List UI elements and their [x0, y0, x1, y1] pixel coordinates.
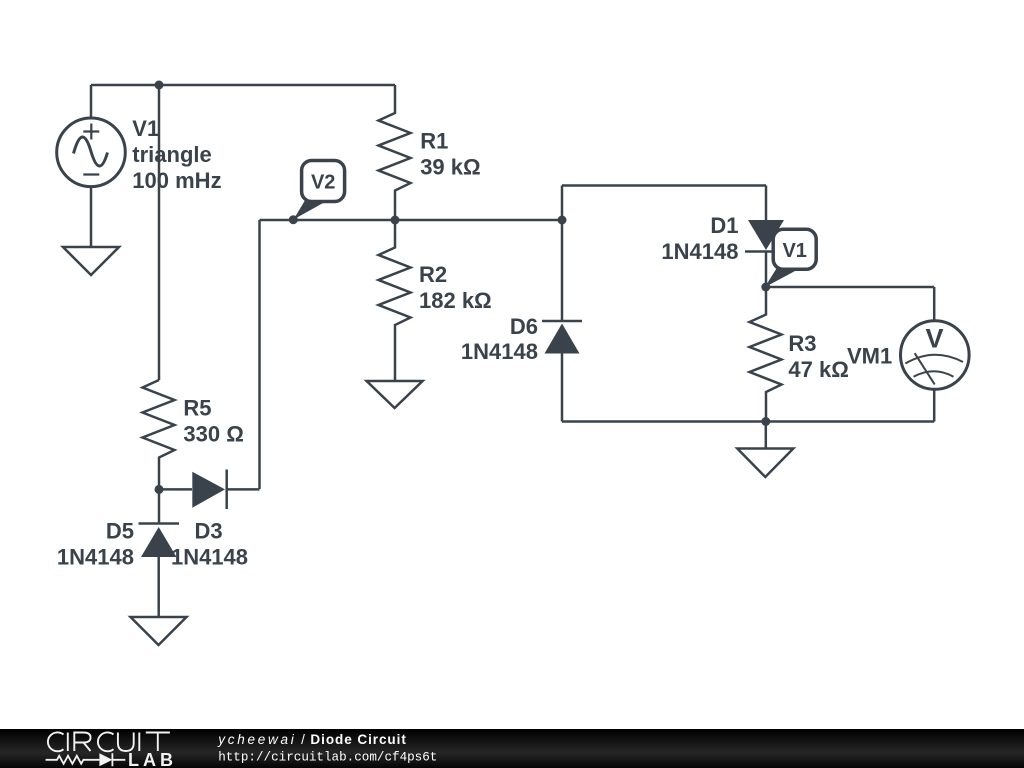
wire mid horizontal node V2 — [260, 219, 563, 222]
svg-text:1N4148: 1N4148 — [461, 339, 538, 364]
svg-text:V1: V1 — [132, 116, 159, 141]
diode D1 — [745, 186, 784, 288]
R1 labels — [420, 129, 480, 180]
svg-text:VM1: VM1 — [847, 344, 892, 369]
footer bar — [0, 729, 1024, 768]
ground under V1 — [63, 247, 119, 275]
R5 labels — [183, 395, 243, 446]
ground under R2 — [367, 381, 423, 408]
resistor R5 — [143, 380, 175, 489]
svg-text:ycheewai / Diode Circuit: ycheewai / Diode Circuit — [217, 732, 407, 747]
D6 labels — [461, 314, 538, 364]
wire vertical left of node — [258, 220, 261, 489]
CircuitLab logo wordmark — [48, 732, 170, 751]
R3 labels — [788, 331, 848, 382]
svg-text:182 kΩ: 182 kΩ — [419, 288, 492, 313]
node junction dot top — [155, 81, 164, 90]
junction dot bottom — [761, 417, 770, 426]
svg-text:D3: D3 — [194, 519, 222, 544]
svg-text:R5: R5 — [183, 395, 211, 420]
svg-text:R3: R3 — [788, 331, 816, 356]
label flag V1 — [765, 229, 816, 287]
svg-text:1N4148: 1N4148 — [57, 544, 134, 569]
voltage source V1 — [57, 85, 126, 247]
D1 labels — [661, 213, 738, 264]
svg-text:triangle: triangle — [132, 142, 211, 167]
svg-text:330 Ω: 330 Ω — [183, 422, 243, 447]
svg-text:D1: D1 — [710, 213, 738, 238]
ground under D5 — [131, 617, 187, 645]
svg-text:39 kΩ: 39 kΩ — [420, 155, 480, 180]
svg-text:V: V — [925, 324, 943, 354]
wire node V1 to voltmeter — [766, 286, 934, 289]
R2 labels — [419, 262, 492, 313]
wire top horizontal — [91, 84, 395, 87]
voltmeter VM1 — [901, 287, 970, 422]
svg-text:V1: V1 — [782, 240, 806, 262]
wire vertical left box side (through D6) — [561, 186, 564, 322]
resistor R2 — [379, 220, 411, 381]
resistor R3 — [750, 287, 782, 422]
svg-text:D5: D5 — [106, 519, 134, 544]
svg-text:1N4148: 1N4148 — [171, 544, 248, 569]
svg-text:R2: R2 — [419, 262, 447, 287]
diode D6 — [542, 321, 582, 422]
junction dot R5/D5/D3 — [155, 485, 164, 494]
label flag V2 — [289, 161, 345, 225]
svg-text:D6: D6 — [510, 314, 538, 339]
svg-text:47 kΩ: 47 kΩ — [788, 357, 848, 382]
svg-text:100 mHz: 100 mHz — [132, 168, 221, 193]
svg-text:R1: R1 — [420, 129, 448, 154]
CircuitLab logo squiggle resistor+diode — [46, 753, 126, 766]
junction dot at box corner — [558, 216, 567, 225]
V1 label text — [132, 116, 221, 193]
diode D5 — [139, 489, 180, 617]
wire vertical from top junction down to R5 — [158, 85, 161, 380]
junction dot R1/R2 — [391, 216, 400, 225]
wire bottom horizontal — [562, 420, 934, 423]
D5 labels — [57, 519, 134, 570]
wire to D3 — [159, 488, 192, 491]
diode D3 — [192, 470, 259, 510]
wire top right horizontal — [562, 184, 766, 187]
svg-text:http://circuitlab.com/cf4ps6t: http://circuitlab.com/cf4ps6t — [218, 750, 437, 764]
svg-text:V2: V2 — [311, 171, 335, 193]
ground bottom — [737, 422, 793, 478]
svg-text:1N4148: 1N4148 — [661, 239, 738, 264]
D3 labels — [171, 519, 248, 570]
resistor R1 — [379, 85, 411, 220]
junction dot node V1 — [761, 283, 770, 292]
svg-text:LAB: LAB — [128, 750, 177, 768]
